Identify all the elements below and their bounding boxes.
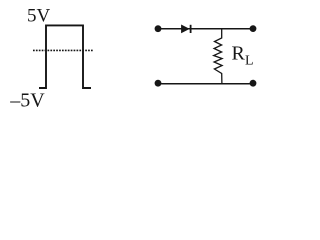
square-wave input waveform [39,25,91,88]
svg-text:–5V: –5V [9,90,45,112]
wire top rail [158,28,253,30]
svg-text:L: L [245,54,254,69]
svg-text:5V: 5V [27,5,51,26]
node bottom-right [250,80,257,87]
resistor RL [214,29,222,84]
dotted zero-volt axis [33,49,93,51]
wire bottom rail [158,83,253,85]
node bottom-left [155,80,162,87]
node top-left [155,25,162,32]
node top-right [250,25,257,32]
diode D1 [182,25,191,33]
svg-text:R: R [232,43,246,65]
